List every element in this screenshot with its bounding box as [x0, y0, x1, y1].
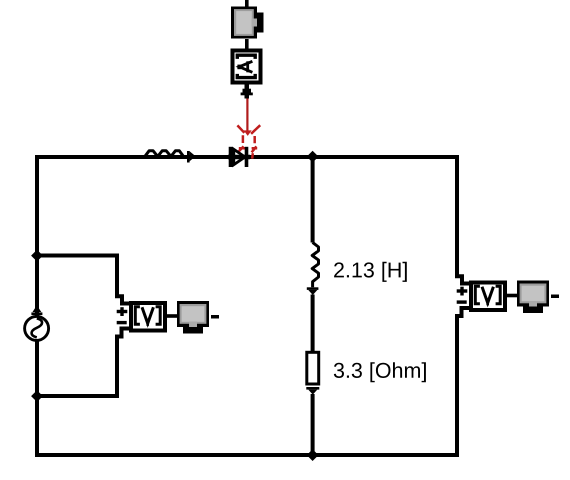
wire left tap upper to voltmeter V1 [37, 256, 129, 304]
wire top bus [35, 155, 459, 159]
voltmeter V1 box [131, 303, 165, 331]
wire right bus lower segment [457, 308, 469, 457]
wire through diode D1 [228, 155, 250, 160]
voltmeter V1 label [135, 307, 160, 326]
wire stub top of page [245, 0, 249, 7]
voltmeter V2 label [475, 286, 500, 305]
resistor R1 body [307, 352, 319, 384]
node junction bottom of middle branch [307, 449, 319, 461]
voltmeter V2 plus sign [457, 287, 468, 296]
node junction left lower [31, 390, 43, 402]
voltmeter V1 minus sign [117, 321, 127, 324]
red lightning bolt right half [251, 125, 260, 158]
node junction left upper [31, 250, 43, 262]
wire middle branch mid [311, 295, 315, 353]
diode D1 cathode bar [245, 147, 249, 167]
ammeter A1 label rotated [237, 55, 255, 77]
probe right terminal dash [551, 295, 559, 299]
wire stub V1 to probe [167, 314, 177, 318]
connector plus node below ammeter [241, 85, 253, 99]
inductor L2 value label [334, 262, 407, 282]
source ES sine squiggle [32, 318, 43, 337]
diode D1 triangle [234, 149, 245, 164]
diode D1 anode bar [229, 147, 233, 167]
inductor L2 zigzag middle branch [312, 242, 318, 287]
probe monitor icon top rotated [231, 7, 264, 39]
wire right bus upper segment [457, 155, 469, 284]
wire stub V2 to probe [507, 294, 517, 298]
resistor R1 direction arrow [306, 387, 319, 395]
probe monitor icon left [177, 301, 209, 334]
voltmeter V2 box [471, 283, 505, 311]
probe left terminal dash [211, 315, 219, 319]
ammeter A1 box [233, 51, 261, 83]
voltmeter V1 plus sign [117, 307, 128, 316]
inductor L2 direction arrow [307, 287, 319, 295]
red lightning bolt left half [237, 125, 246, 153]
red firing signal arrowhead [244, 130, 252, 136]
wire left bus [35, 155, 39, 457]
wire middle branch lower [311, 394, 315, 457]
inductor L1 direction arrow [187, 151, 196, 163]
wire middle branch upper [311, 155, 315, 243]
red firing signal line [246, 98, 248, 134]
wire bottom bus [35, 453, 459, 457]
wire left tap lower from voltmeter V1 [37, 329, 129, 397]
source ES polarity arrow [31, 305, 42, 315]
node junction top of middle branch [307, 151, 319, 163]
source ES circle [25, 316, 49, 340]
inductor L1 zigzag on top bus [145, 151, 184, 157]
wire stub ammeter to node [245, 85, 250, 90]
wire stub monitor to ammeter [245, 39, 249, 49]
voltmeter V2 minus sign [457, 300, 467, 303]
resistor R1 value label [334, 362, 426, 382]
probe monitor icon right [517, 281, 549, 314]
